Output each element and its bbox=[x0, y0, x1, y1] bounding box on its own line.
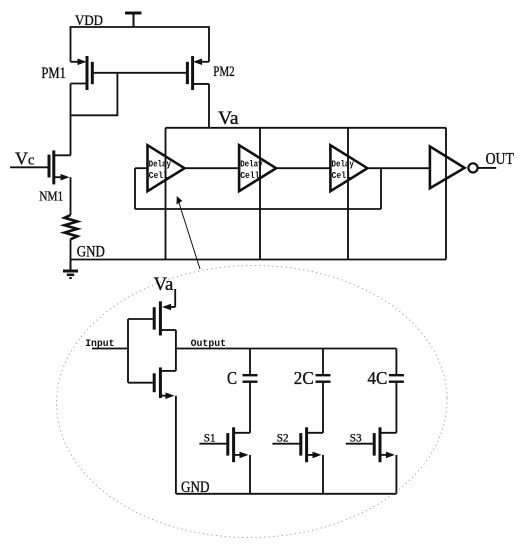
leader arrow to delay cell detail bbox=[177, 196, 201, 269]
svg-text:Delay: Delay bbox=[240, 158, 263, 169]
wire Vc input bbox=[10, 166, 49, 168]
inverter U1 bbox=[430, 128, 478, 260]
svg-text:PM1: PM1 bbox=[41, 65, 66, 82]
delay cell 2 bbox=[239, 128, 276, 260]
transistor cell PMOS bbox=[128, 301, 176, 348]
svg-text:GND: GND bbox=[77, 244, 105, 261]
svg-text:2C: 2C bbox=[294, 368, 314, 388]
svg-text:S1: S1 bbox=[204, 432, 216, 444]
svg-text:S2: S2 bbox=[277, 432, 289, 444]
switch S2 (NMOS) bbox=[272, 427, 323, 494]
svg-text:S3: S3 bbox=[350, 432, 362, 444]
capacitor C bbox=[243, 349, 258, 433]
svg-text:Cell: Cell bbox=[149, 170, 169, 181]
wire PM2 drain to ring (node Va) bbox=[208, 84, 210, 128]
capacitor 2C bbox=[316, 349, 331, 433]
wire input lead bbox=[92, 348, 128, 350]
svg-text:C: C bbox=[227, 368, 237, 388]
wire feedback right vertical bbox=[380, 168, 382, 209]
transistor PM1 bbox=[71, 56, 93, 90]
wire VDD rail bbox=[71, 27, 210, 62]
wire cell3 to inverter bbox=[367, 167, 430, 169]
transistor PM2 bbox=[187, 56, 209, 90]
wire output rail bbox=[176, 348, 397, 350]
svg-text:Delay: Delay bbox=[332, 158, 355, 169]
ground symbol bbox=[63, 260, 78, 279]
wire ring top rail (Va) bbox=[166, 127, 447, 129]
wire OUT lead bbox=[478, 167, 497, 169]
delay cell 1 bbox=[148, 128, 185, 260]
transistor NM1 bbox=[49, 150, 71, 215]
capacitor 4C bbox=[389, 349, 404, 433]
wire feedback left vertical bbox=[134, 168, 136, 209]
resistor bbox=[64, 215, 77, 239]
wire diode connection PM1 gate-drain bbox=[71, 73, 118, 116]
svg-text:Va: Va bbox=[154, 274, 174, 295]
svg-text:PM2: PM2 bbox=[213, 64, 235, 80]
svg-text:Cell: Cell bbox=[240, 170, 260, 181]
wire cell1 to cell2 bbox=[185, 167, 240, 169]
wire common gate vertical bbox=[127, 319, 129, 383]
VDD power symbol bbox=[125, 13, 142, 27]
wire feedback to cell1 input bbox=[135, 167, 148, 169]
svg-text:Vc: Vc bbox=[15, 148, 34, 168]
wire cell GND rail bbox=[176, 493, 397, 495]
dashed ellipse around delay cell detail bbox=[54, 262, 449, 541]
svg-text:NM1: NM1 bbox=[39, 189, 63, 204]
switch S1 (NMOS) bbox=[199, 427, 250, 494]
wire PM1 drain to NM1 drain bbox=[70, 84, 72, 156]
wire cell2 to cell3 bbox=[276, 167, 330, 169]
transistor cell NMOS bbox=[128, 349, 176, 494]
svg-text:Va: Va bbox=[218, 109, 239, 129]
svg-text:Delay: Delay bbox=[149, 158, 172, 169]
delay cell 3 bbox=[330, 128, 367, 260]
svg-text:OUT: OUT bbox=[486, 149, 515, 168]
wire bottom GND rail bbox=[71, 259, 447, 261]
switch S3 (NMOS) bbox=[346, 427, 397, 494]
wire Va lead (cell detail) bbox=[174, 289, 176, 307]
wire gate rail PM1-PM2 bbox=[92, 72, 187, 74]
svg-text:4C: 4C bbox=[367, 368, 387, 388]
wire feedback bottom bbox=[135, 208, 381, 210]
svg-text:Cell: Cell bbox=[332, 170, 352, 181]
wire resistor to GND rail bbox=[70, 239, 72, 259]
